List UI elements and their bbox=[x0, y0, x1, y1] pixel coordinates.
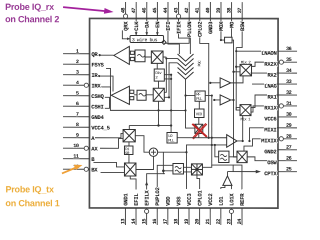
pin 36 LNAON (right) bbox=[261, 46, 297, 57]
wire A3 out up to MIX2 bbox=[231, 76, 243, 83]
pin 32 RX1 (right) bbox=[267, 90, 297, 101]
wire LO1X up bbox=[230, 185, 232, 189]
svg-text:25: 25 bbox=[286, 167, 292, 173]
wire CPTX with arrow bbox=[212, 145, 261, 173]
wire MIXI bbox=[249, 128, 278, 141]
svg-text:4: 4 bbox=[76, 80, 79, 86]
wire IFI down bbox=[168, 19, 179, 55]
svg-text:32: 32 bbox=[286, 90, 292, 96]
wire MX-Q right feed bbox=[163, 56, 166, 58]
mixer MIX1 bbox=[240, 105, 251, 123]
wire chevron to MX-I top feed bbox=[164, 58, 177, 92]
pin 9 A (left) bbox=[63, 133, 95, 142]
wire lo to MIX2 a bbox=[236, 66, 240, 68]
junction A5 out / MIX1 drive bbox=[242, 140, 244, 142]
pin 10 AX (left) bbox=[63, 143, 98, 152]
svg-text:VCC3: VCC3 bbox=[186, 193, 193, 206]
wire MX-A to DIV-TX bbox=[128, 142, 130, 146]
pin 47 CLK (top) bbox=[131, 2, 140, 31]
svg-text:20: 20 bbox=[195, 219, 201, 225]
wire F4 to MX-TX bbox=[229, 156, 237, 158]
wire GND3 stub bbox=[209, 19, 211, 30]
svg-text:Mix 1: Mix 1 bbox=[240, 117, 251, 122]
wire DIV2 out a bbox=[164, 75, 171, 133]
svg-text:RX1: RX1 bbox=[267, 94, 277, 101]
pin 19 VCC3 (bottom) bbox=[184, 193, 193, 225]
wire chevron tail down bbox=[185, 79, 194, 128]
svg-text:43: 43 bbox=[173, 8, 179, 14]
pin 37 BSW (top) bbox=[237, 2, 246, 31]
pin 22 LO1 (bottom) bbox=[216, 196, 225, 225]
pin 11 B (left) bbox=[63, 154, 95, 163]
svg-text:CSHI: CSHI bbox=[91, 104, 103, 111]
pin 39 MOX (top) bbox=[216, 2, 225, 31]
wire RF PLL right bbox=[205, 95, 212, 97]
wire cross link bbox=[211, 96, 213, 145]
pin 3 IR (left) bbox=[63, 70, 98, 79]
svg-text:IFIX: IFIX bbox=[175, 21, 182, 34]
pin 14 EFIL (bottom) bbox=[131, 193, 140, 225]
mixer MX-Q (RX Q mixer) bbox=[151, 51, 163, 63]
pin 6 CSHI (left) bbox=[63, 101, 104, 110]
wire F2 to MX-I bbox=[146, 94, 153, 96]
wire RF PLL left bbox=[186, 95, 195, 97]
wire LO PLL to TX amp bbox=[177, 137, 227, 139]
pin 45 EN (top) bbox=[152, 2, 161, 28]
svg-text:GND4: GND4 bbox=[91, 114, 104, 121]
svg-text:GND1: GND1 bbox=[122, 193, 129, 206]
wire DIV-TX to MX-B bbox=[128, 154, 130, 163]
wire A4 input bbox=[214, 99, 220, 101]
wire DIV2 out b bbox=[164, 78, 171, 80]
pin 26 OSW (right) bbox=[267, 156, 297, 167]
pll box LO PLL bbox=[167, 133, 177, 144]
capacitor bracket CSHQ/CSHI bbox=[105, 97, 110, 108]
pin 2 FSYS (left) bbox=[63, 59, 104, 68]
svg-text:DA: DA bbox=[144, 21, 151, 28]
wire chevron to MX-I low feed bbox=[164, 63, 177, 98]
wire DA to bus bbox=[146, 18, 148, 35]
annotation arrow to pin 12 bbox=[62, 165, 83, 174]
svg-text:CPLO1: CPLO1 bbox=[197, 190, 204, 206]
wire sum tap down to F3 bbox=[163, 152, 165, 174]
pin 35 RX2X (right) bbox=[264, 57, 297, 68]
pin 42 PLLON (top) bbox=[184, 2, 193, 37]
annotation probe IQ_tx text bbox=[5, 184, 59, 208]
wire LNAG bbox=[252, 83, 278, 85]
svg-text:13: 13 bbox=[120, 219, 126, 225]
svg-text:8: 8 bbox=[76, 122, 79, 128]
svg-text:40: 40 bbox=[205, 8, 211, 14]
pin 27 GND2 (right) bbox=[264, 145, 297, 156]
pin 46 DA (top) bbox=[142, 2, 151, 28]
svg-text:VDD: VDD bbox=[165, 196, 172, 206]
serial interface block: 3 wire bus bbox=[130, 35, 166, 44]
svg-text:CPTX: CPTX bbox=[264, 170, 277, 177]
wire A6 output bbox=[226, 172, 228, 176]
svg-text:30: 30 bbox=[286, 112, 292, 118]
svg-text:3: 3 bbox=[76, 70, 79, 76]
svg-text:48: 48 bbox=[120, 8, 126, 14]
annotation arrow to pin 48 bbox=[63, 7, 114, 14]
pin 30 VCC6 (right) bbox=[264, 112, 297, 123]
svg-text:35: 35 bbox=[286, 57, 292, 63]
wire F1 to MX-Q bbox=[145, 56, 151, 58]
svg-text:45: 45 bbox=[152, 8, 158, 14]
wire EFIL up bbox=[130, 176, 136, 190]
wire BSW bbox=[236, 19, 242, 48]
wire LO1 up bbox=[221, 185, 225, 189]
wire MIXIX bbox=[244, 139, 275, 151]
svg-text:Probe IQ_tx: Probe IQ_tx bbox=[5, 184, 54, 194]
gain block small box Q bbox=[130, 51, 134, 54]
svg-text:29: 29 bbox=[286, 123, 292, 129]
wire FSYS routing bbox=[106, 68, 186, 110]
pin 34 RX2 (right) bbox=[267, 68, 297, 79]
wire VCO-offset mixer bbox=[198, 118, 200, 125]
wire MX-TX to OSW bbox=[247, 157, 278, 161]
svg-text:QR: QR bbox=[91, 51, 98, 58]
svg-text:36: 36 bbox=[286, 46, 292, 52]
svg-text:1: 1 bbox=[76, 49, 79, 55]
svg-text:FSYS: FSYS bbox=[91, 62, 104, 69]
wire DIV2 to MX-I bbox=[158, 81, 160, 88]
svg-text:LNAON: LNAON bbox=[261, 50, 276, 57]
pin 44 IFI (top) bbox=[163, 2, 172, 31]
pin 41 CPLO2 (top) bbox=[195, 2, 204, 37]
svg-text:38: 38 bbox=[226, 8, 232, 14]
filter F4 (TX offset filter) bbox=[219, 151, 229, 162]
svg-text:15: 15 bbox=[142, 219, 148, 225]
wire EFILX up with arrow bbox=[145, 174, 163, 190]
svg-text:9: 9 bbox=[76, 133, 79, 139]
wire F3 to MX-LO2 bottom bbox=[183, 171, 191, 173]
svg-text:VSS: VSS bbox=[175, 196, 182, 206]
wire MX-Q to DIV2 bbox=[156, 63, 158, 69]
mixer MX-OFS (offset mixer, crossed out) bbox=[195, 124, 203, 133]
wire F3 to MX-LO2 top bbox=[183, 166, 191, 168]
svg-text:OSW: OSW bbox=[267, 159, 277, 166]
svg-text:39: 39 bbox=[216, 8, 222, 14]
svg-text:IRX: IRX bbox=[91, 83, 101, 90]
pin 16 PUPLO2 (bottom) bbox=[152, 187, 161, 225]
wire PUPLO2 up bbox=[157, 165, 173, 189]
svg-text:RX1X: RX1X bbox=[264, 105, 277, 112]
pin 29 MIXI (right) bbox=[264, 123, 297, 134]
svg-text:34: 34 bbox=[286, 68, 292, 74]
svg-text:BX: BX bbox=[91, 167, 98, 174]
svg-text:22: 22 bbox=[216, 219, 222, 225]
svg-text:10: 10 bbox=[73, 143, 79, 149]
svg-text:3 wire bus: 3 wire bus bbox=[132, 37, 158, 43]
svg-text:RX2: RX2 bbox=[267, 72, 277, 79]
wire A input bbox=[95, 133, 123, 137]
svg-text:VCC6: VCC6 bbox=[264, 115, 277, 122]
pin 5 CSHQ (left) bbox=[63, 91, 104, 100]
wire SUM1 output bbox=[158, 145, 227, 152]
wire PLLON to bus diamond bbox=[164, 19, 189, 44]
wire MX-OFS output down bbox=[198, 133, 200, 137]
svg-text:2: 2 bbox=[76, 59, 79, 65]
summer SUM1 bbox=[149, 148, 157, 156]
mixer MX-LO2 (offset loop mixer) bbox=[191, 164, 202, 175]
wire REFR up bbox=[233, 165, 242, 189]
divider DIV2 (RX quadrature divider) bbox=[154, 69, 164, 81]
svg-text:MIXI: MIXI bbox=[264, 126, 276, 133]
pin 31 RX1X (right) bbox=[264, 101, 297, 112]
port stub I low bbox=[130, 97, 134, 100]
wire IR output bbox=[98, 75, 113, 92]
buffer A6 (LO1 input amp) bbox=[223, 176, 232, 186]
svg-text:47: 47 bbox=[131, 8, 137, 14]
svg-text:Probe IQ_rx: Probe IQ_rx bbox=[5, 2, 54, 12]
op-amp A1 (Q output amp) bbox=[114, 46, 130, 64]
svg-text:19: 19 bbox=[184, 219, 190, 225]
pin 20 CPLO1 (bottom) bbox=[195, 190, 204, 225]
svg-text:42: 42 bbox=[184, 8, 190, 14]
svg-text:MIXIX: MIXIX bbox=[261, 137, 277, 144]
svg-text:EFILX: EFILX bbox=[144, 190, 151, 206]
pll box RF PLL bbox=[195, 91, 205, 102]
svg-text:IFI: IFI bbox=[165, 22, 172, 31]
svg-text:28: 28 bbox=[286, 134, 292, 140]
svg-text:LO1X: LO1X bbox=[228, 193, 235, 206]
wire lo to MIX2 b bbox=[234, 71, 240, 73]
LO distribution vertical v-lo1 bbox=[232, 40, 237, 157]
wire A3 input bbox=[210, 82, 220, 84]
svg-text:MOX: MOX bbox=[218, 21, 225, 31]
svg-text:on Channel 2: on Channel 2 bbox=[5, 14, 59, 24]
PGC chevron amp cascade bbox=[178, 54, 194, 79]
LO distribution vertical v-lo2 bbox=[236, 48, 240, 111]
svg-text:31: 31 bbox=[286, 101, 292, 107]
pin 13 GND1 (bottom) bbox=[120, 193, 129, 225]
wire BX input bbox=[101, 172, 125, 174]
svg-text:MO: MO bbox=[228, 21, 235, 28]
pin 15 EFILX (bottom) bbox=[142, 190, 151, 225]
mixer MIX2 bbox=[240, 60, 252, 75]
svg-text:VCC4_5: VCC4_5 bbox=[91, 125, 110, 132]
svg-text:GND3: GND3 bbox=[207, 21, 214, 34]
wire MX-I LO down to TX divider bbox=[157, 101, 159, 125]
svg-text:AX: AX bbox=[91, 146, 98, 153]
svg-text:27: 27 bbox=[286, 145, 292, 151]
svg-text:VCC2: VCC2 bbox=[207, 193, 214, 206]
mixer MX-TX (TX loop mixer) bbox=[237, 151, 247, 162]
wire IFIX down bbox=[179, 18, 191, 54]
svg-text:CLK: CLK bbox=[133, 21, 140, 31]
wire RX1X to MIX1 bbox=[251, 106, 278, 112]
svg-text:QRX: QRX bbox=[122, 21, 129, 31]
wire RX2 to MIX2 bbox=[251, 72, 279, 74]
filter F3 bbox=[173, 164, 184, 175]
svg-text:17: 17 bbox=[163, 219, 169, 225]
svg-text:24: 24 bbox=[237, 219, 243, 225]
mixer MX-A (TX I mixer) bbox=[123, 129, 135, 141]
pin 4 IRX (left) bbox=[63, 80, 101, 89]
wire QRX to bus bbox=[122, 30, 130, 38]
pin 38 MO (top) bbox=[226, 2, 235, 28]
red X cross-out annotation bbox=[192, 124, 207, 139]
wire IRX output bbox=[100, 87, 111, 95]
svg-text:CPLO2: CPLO2 bbox=[197, 21, 204, 37]
svg-text:IR: IR bbox=[91, 72, 98, 79]
mod select box M bbox=[225, 37, 233, 43]
svg-text:RX2X: RX2X bbox=[264, 61, 277, 68]
wire MOX bbox=[221, 19, 225, 41]
svg-text:PLLON: PLLON bbox=[186, 22, 193, 37]
svg-text:44: 44 bbox=[163, 8, 169, 14]
wire RX1 to MIX1 bbox=[251, 95, 278, 108]
svg-text:7: 7 bbox=[76, 112, 79, 118]
wire EN to bus bbox=[156, 19, 158, 36]
svg-text:37: 37 bbox=[237, 8, 243, 14]
svg-text:6: 6 bbox=[76, 101, 79, 107]
filter F2 (I lowpass) bbox=[137, 90, 146, 100]
svg-text:46: 46 bbox=[142, 8, 148, 14]
pin 24 REFR (bottom) bbox=[237, 193, 246, 225]
svg-text:23: 23 bbox=[226, 219, 232, 225]
wire B input bbox=[93, 162, 124, 167]
VCO box bbox=[194, 109, 204, 118]
svg-text:41: 41 bbox=[195, 8, 201, 14]
pin 8 VCC4_5 (left) bbox=[63, 122, 111, 131]
pin 48 QRX (top) bbox=[120, 2, 129, 31]
svg-text:BSW: BSW bbox=[239, 21, 246, 31]
wire A4 out to MIX1 bbox=[231, 99, 234, 101]
wire RFPLL-VCO bbox=[198, 101, 200, 109]
op-amp A2 (I output amp) bbox=[111, 86, 129, 104]
wire AX input bbox=[100, 139, 123, 149]
wire CLK to bus bbox=[135, 18, 137, 35]
pin 43 IFIX (top) bbox=[173, 2, 182, 34]
mixer MX-B (TX Q mixer) bbox=[124, 163, 136, 176]
svg-text:LO1: LO1 bbox=[218, 196, 225, 206]
port stub I high bbox=[130, 90, 134, 93]
LNA amp A3 bbox=[220, 78, 231, 88]
wire MX-A to SUM1 bbox=[135, 136, 149, 153]
svg-text:5: 5 bbox=[76, 91, 79, 97]
pin 7 GND4 (left) bbox=[63, 112, 104, 121]
wire MO bbox=[231, 19, 233, 38]
svg-text:on Channel 1: on Channel 1 bbox=[5, 198, 59, 208]
pin 25 CPTX (right) bbox=[264, 167, 297, 178]
wire RX2X to MIX2 bbox=[252, 62, 279, 66]
LNA amp A4 bbox=[220, 95, 231, 105]
annotation probe IQ_rx text bbox=[5, 2, 59, 24]
pin 21 VCC2 (bottom) bbox=[205, 193, 214, 225]
svg-text:REFR: REFR bbox=[239, 193, 246, 206]
svg-text:33: 33 bbox=[286, 79, 292, 85]
wire TX path into F4 bbox=[215, 145, 219, 157]
wire A5 out up to MIX1 bbox=[237, 116, 243, 141]
wire LNAON bbox=[236, 50, 278, 52]
svg-text:CSHQ: CSHQ bbox=[91, 93, 104, 100]
IC body outline U1 bbox=[89, 18, 278, 208]
wire MX-B to SUM1 bbox=[136, 156, 154, 169]
wire VCC3 vertical bbox=[185, 152, 187, 189]
pin 28 MIXIX (right) bbox=[261, 134, 297, 145]
pin 33 LNAG (right) bbox=[264, 79, 297, 90]
wire QR output bbox=[99, 54, 114, 56]
svg-text:EFIL: EFIL bbox=[133, 193, 140, 206]
svg-text:26: 26 bbox=[286, 156, 292, 162]
svg-text:LNAG: LNAG bbox=[264, 83, 277, 90]
pin 1 QR (left) bbox=[63, 49, 98, 58]
port stub Q low bbox=[130, 57, 134, 60]
pin 40 GND3 (top) bbox=[205, 2, 214, 34]
svg-text:PUPLO2: PUPLO2 bbox=[154, 187, 161, 206]
op-amp A5 (TX IF amp) bbox=[227, 135, 237, 148]
wire MX-LO2 right up bbox=[202, 165, 211, 167]
pin 23 LO1X (bottom) bbox=[226, 193, 235, 225]
svg-text:18: 18 bbox=[173, 219, 179, 225]
mixer MX-I (RX I mixer) bbox=[153, 88, 164, 101]
junction chevron tail / FSYS bbox=[184, 109, 186, 111]
pin 18 VSS (bottom) bbox=[173, 196, 182, 225]
pin 12 BX (left) bbox=[63, 164, 98, 173]
svg-text:GND2: GND2 bbox=[264, 148, 277, 155]
svg-text:14: 14 bbox=[131, 219, 137, 225]
svg-text:EN: EN bbox=[154, 22, 161, 28]
svg-text:11: 11 bbox=[73, 154, 79, 160]
wire A2 to F2 bbox=[134, 94, 137, 96]
filter F1 (Q lowpass) bbox=[135, 50, 145, 62]
svg-text:16: 16 bbox=[152, 219, 158, 225]
wire CPLO2 down middle bbox=[200, 19, 209, 138]
pin 17 VDD (bottom) bbox=[163, 196, 172, 225]
divider DIV-TX 0/90 bbox=[124, 146, 133, 156]
svg-text:21: 21 bbox=[205, 219, 211, 225]
wire MX-LO2 to CPLO1 bbox=[197, 175, 200, 189]
